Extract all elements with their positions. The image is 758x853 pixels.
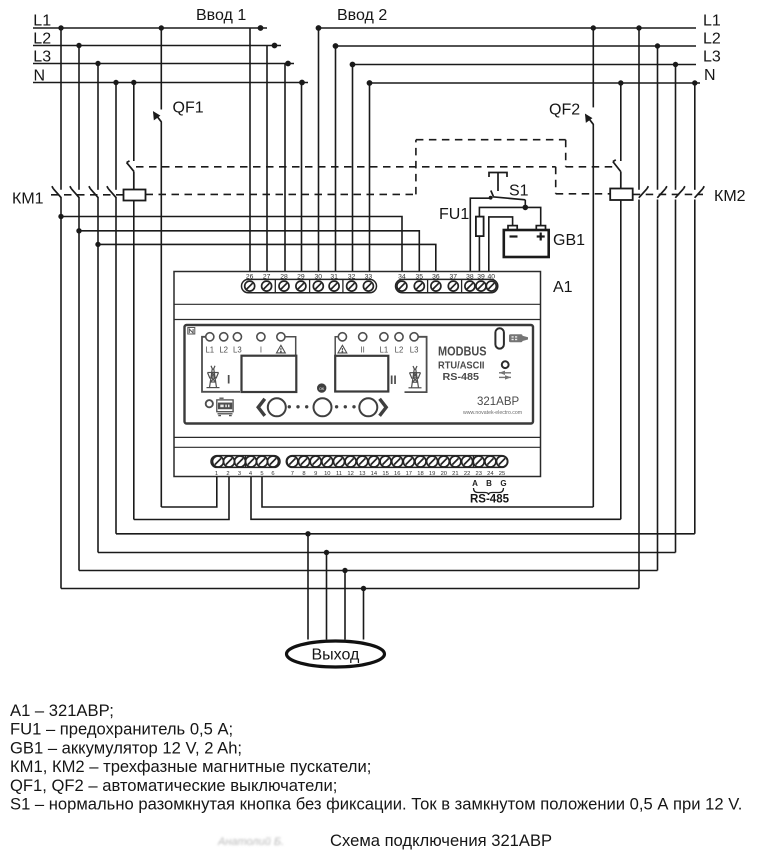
contactor KM1 pole1 blade — [52, 186, 61, 198]
USB plug icon — [509, 334, 528, 342]
svg-text:I: I — [227, 373, 230, 387]
svg-text:19: 19 — [429, 471, 435, 477]
svg-text:S1: S1 — [509, 183, 529, 200]
wire junction to FU1 fuse to terminal 39 — [479, 207, 525, 271]
terminal screws 34-40 — [397, 281, 407, 291]
wire T1 supply loop from QF1 — [161, 477, 217, 508]
wire KM1 pole3 output down — [97, 198, 99, 553]
svg-text:L3: L3 — [233, 346, 242, 355]
wire N drop to terminal 29 — [301, 83, 303, 272]
svg-text:14: 14 — [371, 471, 378, 477]
svg-text:S1 – нормально разомкнутая кно: S1 – нормально разомкнутая кнопка без фи… — [10, 795, 742, 814]
svg-text:7: 7 — [291, 471, 294, 477]
svg-text:www.novatek-electro.com: www.novatek-electro.com — [463, 410, 522, 416]
wire output bus L3 — [98, 552, 676, 554]
wire output tap L2 to load — [344, 571, 346, 640]
nav left arrow — [258, 399, 265, 416]
wire junction to GB1 plus terminal — [525, 207, 540, 226]
wire input2 L1 horizontal — [319, 27, 697, 29]
pin numbers 7-25 — [291, 471, 505, 477]
svg-text:L3: L3 — [410, 346, 419, 355]
wire L2 drop to terminal 27 — [266, 46, 268, 272]
node S1 fixed contact dot — [489, 196, 493, 200]
svg-text:8: 8 — [302, 471, 305, 477]
wire S1 left lead to terminal 38 — [470, 198, 490, 272]
LED II active — [359, 333, 367, 341]
svg-text:N: N — [704, 67, 716, 84]
generator LED — [206, 400, 213, 407]
terminal group outline 7-25 — [286, 456, 508, 468]
battery GB1 minus tab — [508, 226, 517, 230]
nav button 1 — [268, 398, 286, 416]
svg-text:21: 21 — [452, 471, 458, 477]
wire output tap L3 to load — [326, 553, 328, 640]
svg-text:RS-485: RS-485 — [470, 494, 510, 506]
terminal screws 26-33 — [245, 281, 255, 291]
device A1 outer box — [174, 272, 541, 477]
svg-text:17: 17 — [406, 471, 412, 477]
nav right arrow — [380, 399, 387, 416]
wire output bus L1 — [61, 588, 639, 590]
LED alarm input2 — [338, 333, 346, 341]
battery GB1 minus sign — [510, 235, 518, 237]
svg-text:L1: L1 — [33, 13, 51, 30]
wire KM2 pole4 output down — [694, 200, 696, 534]
wire QF1 output down — [160, 122, 162, 508]
svg-text:КМ1: КМ1 — [12, 191, 44, 208]
svg-text:22: 22 — [464, 471, 470, 477]
pin numbers 26-33 — [246, 273, 372, 280]
battery GB1 plus sign — [537, 233, 545, 241]
node L3 input2 junction dots — [350, 62, 356, 68]
svg-text:15: 15 — [382, 471, 388, 477]
svg-text:26: 26 — [246, 273, 254, 280]
contactor KM1 pole2 blade — [70, 186, 79, 198]
svg-text:N: N — [34, 67, 46, 84]
svg-text:I: I — [260, 346, 262, 355]
svg-text:GB1 – аккумулятор 12 V, 2 Ah;: GB1 – аккумулятор 12 V, 2 Ah; — [10, 738, 242, 757]
wire GB1 minus terminal to terminal 40 — [489, 217, 513, 272]
wire bus output sense L2 to terminal 35 — [79, 231, 419, 272]
mechanical link dashed to KM2 coil — [556, 193, 611, 195]
wire KM2 pole2 output down — [657, 200, 659, 571]
mechanical link dashed KM1 coil to crossover riser — [146, 193, 416, 195]
svg-text:34: 34 — [398, 273, 406, 280]
pushbutton S1 contact — [491, 191, 526, 200]
svg-text:L2: L2 — [33, 30, 51, 47]
svg-text:31: 31 — [330, 273, 338, 280]
wire KM2 pole3 output down — [675, 200, 677, 553]
svg-text:11: 11 — [336, 471, 342, 477]
svg-text:II: II — [361, 346, 365, 355]
nav button 2 — [314, 398, 332, 416]
wire input2 L2 horizontal — [336, 45, 697, 47]
wire bus output sense L1 to terminal 34 — [61, 217, 402, 272]
svg-text:20: 20 — [441, 471, 447, 477]
breaker QF1 — [153, 112, 161, 122]
battery GB1 plus tab — [536, 226, 545, 230]
wire input1 L3 horizontal — [33, 63, 294, 65]
svg-text:40: 40 — [488, 273, 496, 280]
svg-text:1: 1 — [215, 471, 218, 477]
wire N drop to KM1 coil — [133, 83, 135, 162]
svg-text:L1: L1 — [380, 346, 389, 355]
svg-text:QF1, QF2 – автоматические выкл: QF1, QF2 – автоматические выключатели; — [10, 776, 337, 795]
node output sense bus dots — [58, 214, 63, 219]
svg-text:9: 9 — [314, 471, 317, 477]
wire input2 L2 riser to terminal 31 — [335, 46, 337, 272]
contactor KM1 armature tick — [127, 161, 134, 190]
wire input1 L1 horizontal — [33, 27, 267, 29]
svg-text:L2: L2 — [703, 31, 721, 48]
wire N drop to KM1 pole4 — [115, 83, 117, 190]
buzzer slot — [495, 328, 504, 348]
wire terminal4 to KM2 coil — [251, 477, 621, 520]
wire bus output sense L3 to terminal 36 — [98, 244, 436, 271]
logo N small — [188, 328, 195, 335]
svg-text:RTU/ASCII: RTU/ASCII — [438, 360, 485, 372]
svg-text:A1 – 321АВР;: A1 – 321АВР; — [10, 701, 114, 720]
node L1 input2 junction dots — [316, 25, 322, 31]
wire input2 L2 drop to KM2 pole2 — [657, 46, 659, 190]
svg-text:33: 33 — [365, 273, 373, 280]
svg-text:18: 18 — [417, 471, 423, 477]
svg-text:12: 12 — [347, 471, 353, 477]
device A1 upper band line — [174, 303, 541, 305]
svg-text:QF1: QF1 — [173, 100, 204, 117]
mechanical link dashed through KM2 poles — [633, 193, 703, 195]
mechanical link dashed riser up at x416 — [415, 140, 417, 195]
load output ellipse — [287, 641, 385, 667]
breaker QF2 — [585, 114, 593, 124]
svg-text:Выход: Выход — [312, 647, 361, 664]
terminal group outline 1-6 — [211, 456, 280, 468]
wire input2 L3 horizontal — [353, 64, 697, 66]
wire input2 N drop to KM2 pole4 — [694, 83, 696, 190]
display II — [335, 356, 388, 392]
wire input2 L1 drop to KM2 pole1 — [638, 28, 640, 190]
terminal group dividers bottom — [246, 456, 474, 468]
wire input2 N drop to KM2 coil — [620, 83, 622, 161]
nav dots 1 — [288, 405, 309, 408]
panel section I bracket — [202, 337, 240, 392]
warning triangle label group II — [338, 345, 347, 353]
svg-text:Анатолий Б.: Анатолий Б. — [217, 836, 284, 848]
wire input2 N riser to terminal 33 — [369, 83, 371, 272]
node L2 input2 junction dots — [333, 43, 339, 49]
svg-text:L3: L3 — [703, 49, 721, 66]
svg-text:30: 30 — [315, 273, 323, 280]
wire output tap L1 to load — [363, 589, 365, 640]
LED L1 input1 — [206, 333, 214, 341]
svg-text:MODBUS: MODBUS — [438, 344, 487, 359]
wire input2 L1 drop to QF2 — [592, 28, 594, 107]
svg-text:GB1: GB1 — [553, 232, 585, 249]
svg-text:6: 6 — [271, 471, 274, 477]
svg-text:39: 39 — [477, 273, 485, 280]
svg-text:5: 5 — [260, 471, 263, 477]
node S1 battery junction dot — [523, 205, 529, 211]
terminal group outline 34-40 — [396, 279, 498, 292]
nav dots 2 — [335, 405, 356, 408]
pin numbers 34-40 — [398, 273, 495, 280]
panel bracket LED to display II — [335, 337, 338, 356]
wire terminal5 supply from QF2 — [262, 477, 593, 508]
wire terminal2 to KM1 coil — [134, 477, 229, 520]
button OK — [317, 383, 326, 392]
svg-text:32: 32 — [348, 273, 356, 280]
svg-text:А1: А1 — [553, 279, 573, 296]
device A1 lower band line — [174, 436, 541, 438]
warning triangle label group I — [277, 345, 286, 353]
mechanical link dashed to KM2 armature — [566, 166, 613, 168]
terminal group dividers top — [275, 279, 461, 292]
LED labels group II — [361, 346, 419, 355]
mechanical link dashed drop at x556 — [555, 167, 557, 194]
wire input2 N horizontal — [370, 82, 701, 84]
wire KM2 coil lower lead down — [620, 200, 622, 519]
svg-text:L1: L1 — [205, 346, 214, 355]
svg-text:38: 38 — [466, 273, 474, 280]
wire input1 N horizontal — [33, 82, 308, 84]
svg-text:QF2: QF2 — [549, 102, 580, 119]
wire KM2 pole1 output down — [638, 200, 640, 589]
contactor KM2 pole1 blade — [639, 186, 649, 198]
mechanical link dashed through KM1 poles — [51, 194, 124, 196]
display I — [242, 356, 297, 392]
fuse FU1 — [476, 217, 484, 237]
wire L1 drop to KM1 pole1 — [60, 28, 62, 190]
mechanical link dashed KM1 armature to crossover — [136, 166, 556, 168]
wire input2 L3 drop to KM2 pole3 — [675, 65, 677, 190]
wire output bus L2 — [79, 570, 658, 572]
wire L3 drop to terminal 28 — [284, 64, 286, 272]
svg-text:L2: L2 — [395, 346, 404, 355]
svg-text:35: 35 — [416, 273, 424, 280]
node L1 input1 junction dots — [58, 25, 63, 30]
svg-text:24: 24 — [487, 471, 494, 477]
node N input2 junction dots — [367, 80, 373, 86]
wire KM1 pole2 output down — [78, 198, 80, 571]
svg-text:L3: L3 — [33, 48, 51, 65]
wire KM1 coil lower lead down — [133, 201, 135, 520]
wire L2 drop to KM1 pole2 — [78, 46, 80, 190]
svg-text:КМ1, КМ2 – трехфазные магнитны: КМ1, КМ2 – трехфазные магнитные пускател… — [10, 757, 371, 776]
wire L1 drop to terminal 26 — [249, 28, 251, 272]
tower icon II — [409, 366, 422, 388]
nav button 3 — [359, 398, 377, 416]
svg-text:A: A — [472, 479, 478, 488]
wire KM1 pole1 output down — [60, 198, 62, 589]
svg-text:36: 36 — [432, 273, 440, 280]
pushbutton S1 actuator — [489, 173, 507, 192]
tower icon I — [207, 366, 220, 388]
pin numbers 1-6 — [215, 471, 275, 477]
svg-text:II: II — [390, 373, 397, 387]
terminal screws 7-25 — [287, 456, 298, 467]
battery GB1 body — [504, 230, 549, 257]
address arrows icon — [499, 373, 511, 378]
address indicator circle — [502, 361, 509, 368]
wire output bus N — [116, 533, 695, 535]
contactor KM2 pole2 blade — [657, 186, 667, 198]
terminal screws 1-6 — [213, 456, 224, 467]
wire input2 L1 riser to terminal 30 — [318, 28, 320, 272]
svg-text:L2: L2 — [219, 346, 228, 355]
svg-text:16: 16 — [394, 471, 400, 477]
svg-text:FU1 – предохранитель 0,5 А;: FU1 – предохранитель 0,5 А; — [10, 720, 233, 739]
mechanical link dashed drop at x566 — [565, 140, 567, 167]
svg-text:КМ2: КМ2 — [714, 188, 746, 205]
svg-text:321АВР: 321АВР — [477, 396, 520, 408]
svg-text:13: 13 — [359, 471, 365, 477]
svg-text:Схема подключения 321АВР: Схема подключения 321АВР — [330, 831, 552, 850]
svg-text:Ввод 2: Ввод 2 — [337, 7, 387, 24]
svg-text:G: G — [500, 479, 506, 488]
LED labels group I — [205, 346, 262, 355]
svg-text:23: 23 — [475, 471, 481, 477]
node N input1 junction dots — [113, 80, 118, 85]
LED L2 input1 — [220, 333, 228, 341]
wire input2 L3 riser to terminal 32 — [352, 65, 354, 272]
contactor KM2 pole4 blade — [695, 186, 705, 198]
generator icon — [217, 398, 233, 415]
LED L3 input2 — [410, 333, 418, 341]
node L2 input1 junction dots — [76, 43, 81, 48]
contactor KM2 armature tick — [613, 160, 621, 189]
svg-text:2: 2 — [226, 471, 229, 477]
wire output tap N to load — [307, 534, 309, 640]
wire L3 drop to KM1 pole3 — [97, 64, 99, 190]
wire QF2 output down — [592, 124, 594, 507]
panel section II bracket — [405, 337, 427, 392]
LED L3 input1 — [233, 333, 241, 341]
contactor KM1 pole3 blade — [89, 186, 98, 198]
LED alarm input1 — [277, 333, 285, 341]
svg-text:OK: OK — [319, 387, 325, 391]
wire input1 L2 horizontal — [33, 45, 281, 47]
contactor KM2 coil — [610, 189, 633, 201]
svg-text:L1: L1 — [703, 13, 721, 30]
mechanical link dashed top bypass — [416, 139, 566, 141]
node output bus tap dots — [305, 531, 310, 536]
svg-text:Ввод 1: Ввод 1 — [196, 7, 246, 24]
svg-text:FU1: FU1 — [439, 206, 469, 223]
LED L1 input2 — [380, 333, 388, 341]
svg-text:25: 25 — [499, 471, 505, 477]
brace RS485 — [474, 488, 504, 495]
node L3 input1 junction dots — [95, 61, 100, 66]
svg-text:B: B — [486, 479, 492, 488]
contactor KM1 coil — [124, 190, 146, 201]
panel bracket LED to display I — [285, 337, 295, 356]
svg-text:27: 27 — [263, 273, 271, 280]
wire KM1 pole4 output down — [115, 198, 117, 534]
device A1 upper band line 2 — [174, 319, 541, 321]
svg-text:28: 28 — [280, 273, 288, 280]
contactor KM1 pole4 blade — [107, 186, 116, 198]
svg-text:3: 3 — [238, 471, 241, 477]
device A1 lower band line 2 — [174, 446, 541, 448]
LED I active — [257, 333, 265, 341]
contactor KM2 pole3 blade — [675, 186, 685, 198]
svg-text:10: 10 — [324, 471, 330, 477]
terminal group outline 26-33 — [242, 279, 377, 292]
LED L2 input2 — [395, 333, 403, 341]
svg-text:29: 29 — [297, 273, 305, 280]
svg-text:37: 37 — [450, 273, 458, 280]
device A1 front panel — [185, 325, 534, 424]
wire L1 drop to QF1 — [160, 28, 162, 110]
wire S1 right lead to junction — [524, 200, 526, 208]
svg-text:RS-485: RS-485 — [443, 371, 480, 383]
